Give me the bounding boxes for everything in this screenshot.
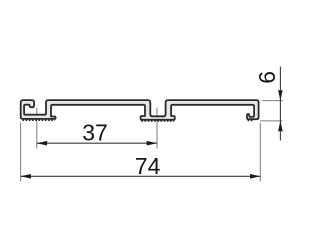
dimension line 74 <box>21 175 261 177</box>
extension line 6 bottom <box>260 120 283 122</box>
serration teeth under left channel floor <box>23 119 56 121</box>
svg-text:6: 6 <box>254 71 280 84</box>
serration teeth under right hook foot <box>248 120 254 122</box>
dimension line 37 <box>37 142 157 144</box>
dimension line 6 <box>279 67 281 141</box>
arrow 74 right <box>250 174 260 179</box>
extension line 74 left <box>20 123 22 182</box>
extension line 6 top <box>262 100 282 102</box>
arrow 37 right <box>147 141 157 146</box>
arrow 6 top (pointing down) <box>278 90 283 100</box>
arrow 37 left <box>37 141 47 146</box>
profile cross-section body <box>21 100 259 120</box>
extension line 37 left <box>36 108 38 149</box>
svg-text:37: 37 <box>82 119 108 145</box>
arrow 74 left <box>21 174 31 179</box>
serration teeth under middle slot feet <box>141 120 174 122</box>
svg-text:74: 74 <box>135 153 161 179</box>
extension line 74 right <box>259 123 261 182</box>
extension line 37 right <box>156 108 158 149</box>
arrow 6 bottom (pointing up) <box>278 121 283 131</box>
